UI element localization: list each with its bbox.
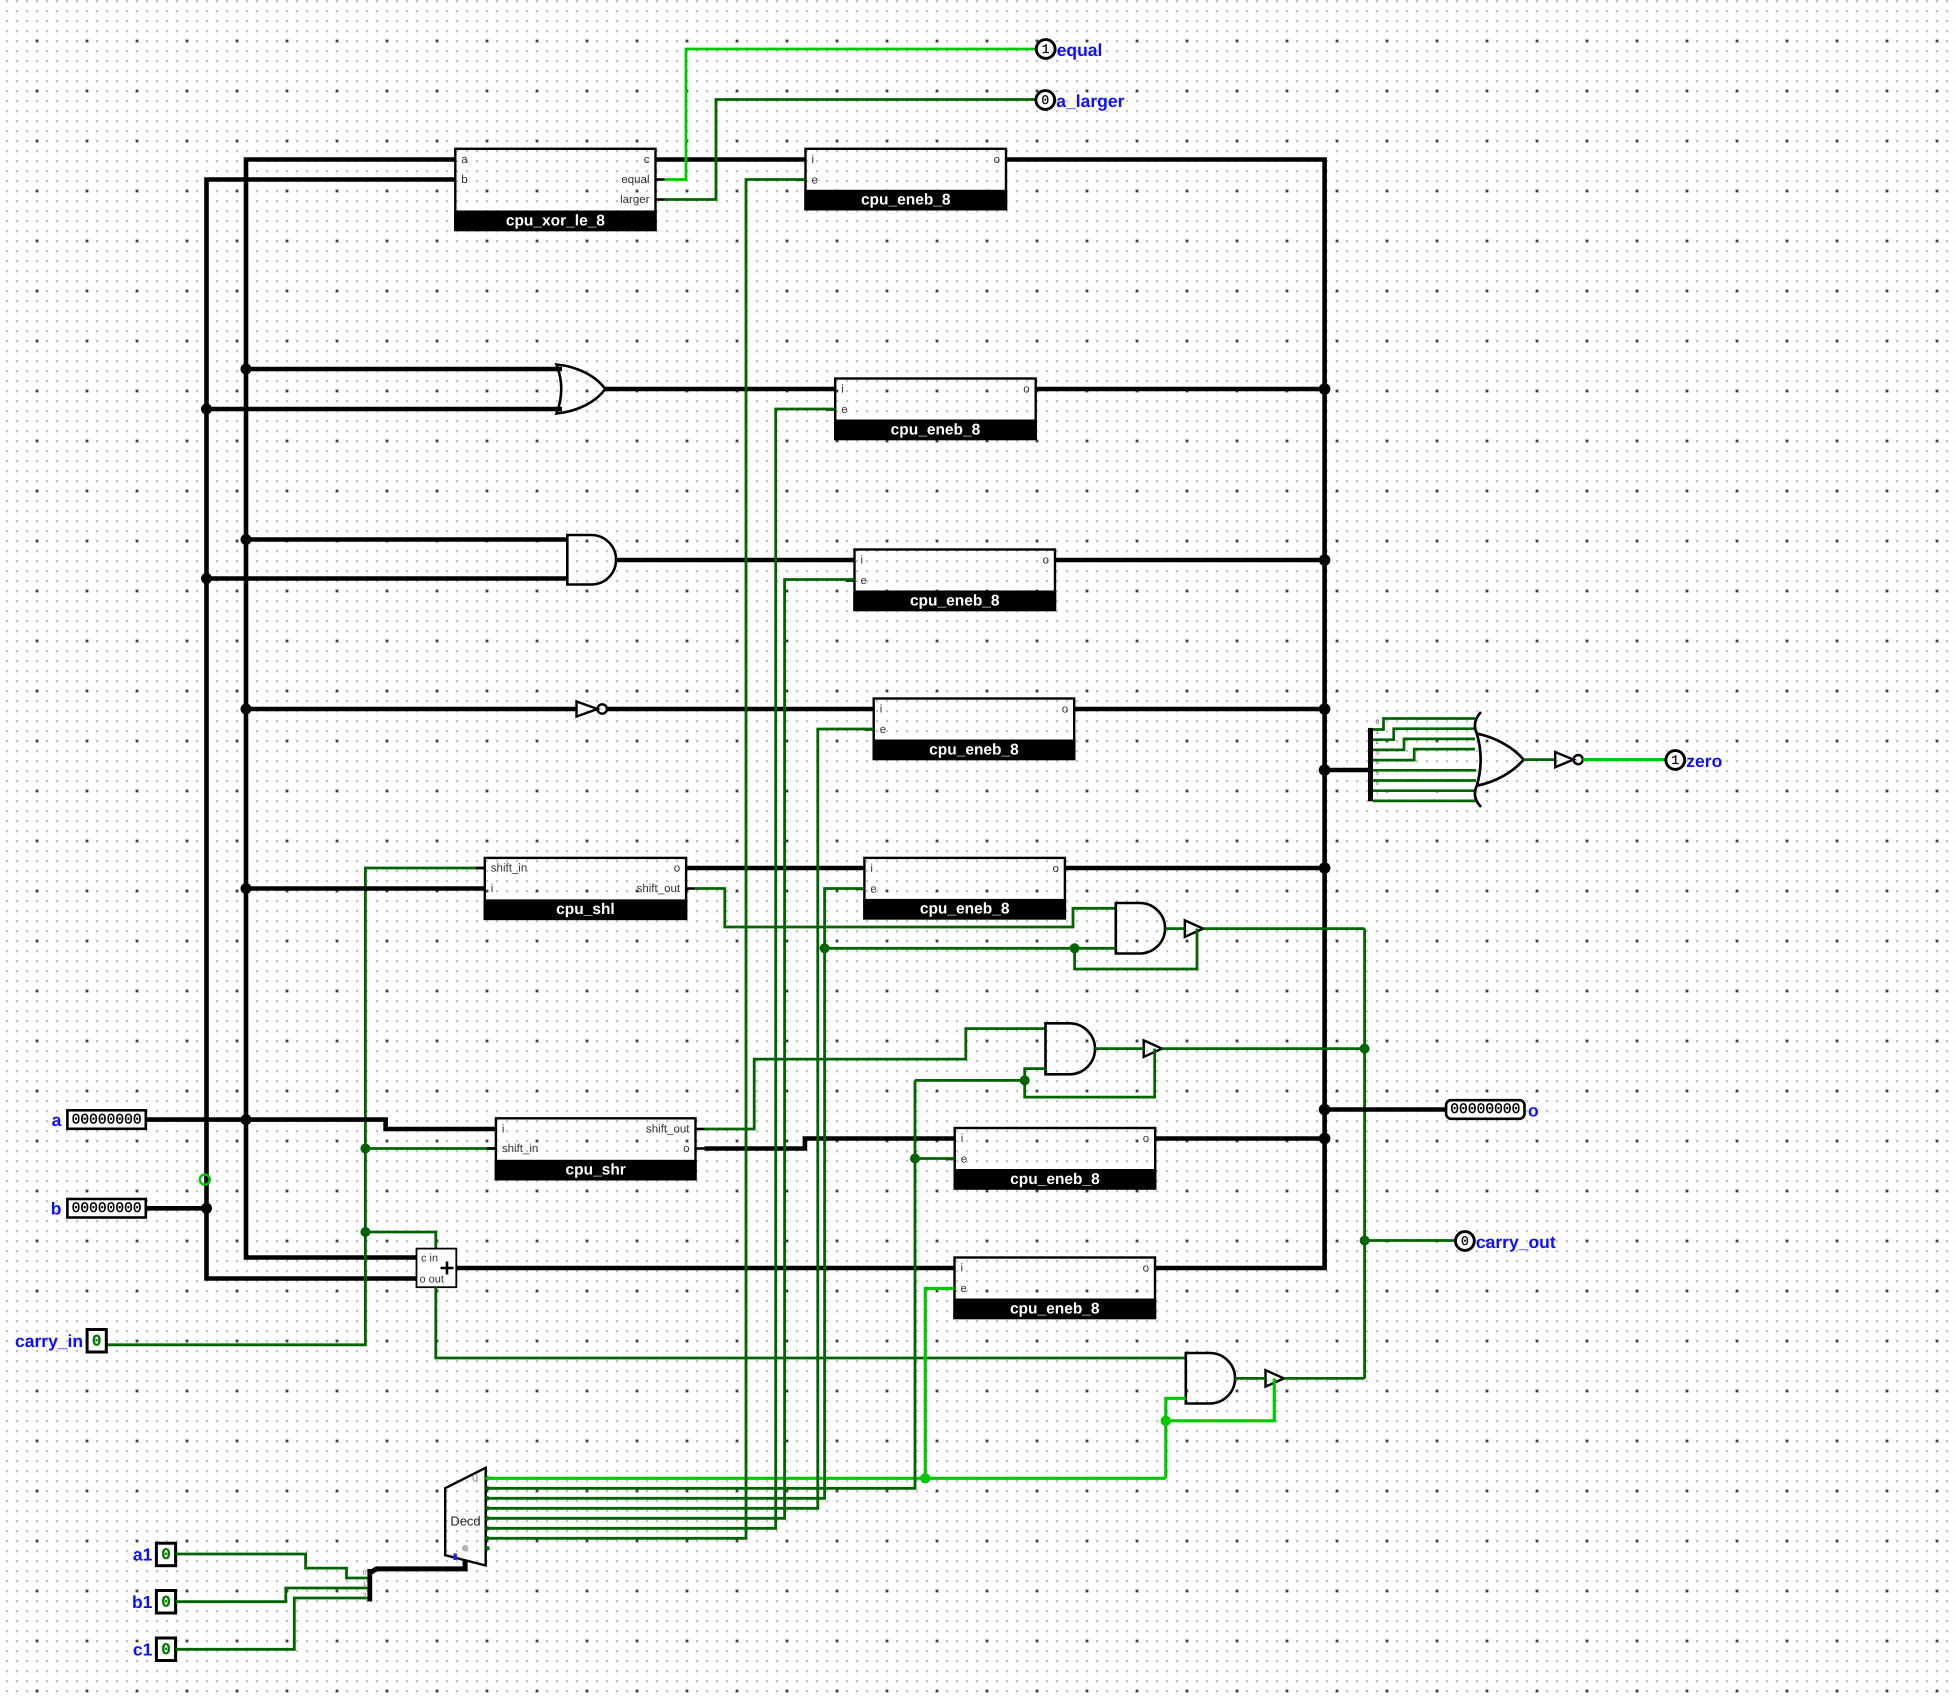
wire decode out2 to U6.e	[486, 889, 865, 1499]
junction a rail row5	[241, 883, 252, 894]
svg-text:0: 0	[161, 1546, 171, 1564]
wire zero net	[1583, 758, 1666, 761]
wire decode out0 (lime)	[486, 1477, 1166, 1480]
output pin equal	[1036, 40, 1102, 60]
svg-text:cpu_xor_le_8: cpu_xor_le_8	[506, 212, 605, 229]
junction a rail row2	[241, 364, 252, 375]
svg-text:o: o	[1023, 384, 1029, 396]
svg-text:b: b	[461, 174, 467, 186]
svg-text:a: a	[52, 1110, 62, 1130]
input pin a	[52, 1110, 146, 1130]
svg-text:o: o	[1043, 555, 1049, 567]
wire shl.o to U6.i	[686, 866, 864, 871]
svg-text:0: 0	[363, 1570, 367, 1577]
svg-text:0: 0	[161, 1594, 171, 1612]
wire a to shl.i	[246, 886, 485, 891]
input pin a1	[133, 1543, 176, 1566]
junction green rail L2	[1360, 1044, 1370, 1054]
wire decode out6 to U2.e	[486, 180, 806, 1539]
svg-text:i: i	[880, 704, 883, 716]
output pin carry_out	[1456, 1232, 1556, 1252]
component U1 cpu_xor_le_8	[446, 149, 664, 231]
wire U7.o to bus	[1155, 1136, 1324, 1141]
svg-text:e: e	[870, 883, 876, 895]
junction bus row6	[1319, 1133, 1331, 1145]
svg-text:i: i	[961, 1133, 964, 1145]
svg-text:0: 0	[161, 1641, 171, 1659]
wire net o bus	[1006, 160, 1325, 1269]
wire splitter bit 3 to OR8	[1373, 749, 1475, 760]
svg-text:cpu_eneb_8: cpu_eneb_8	[910, 592, 1000, 609]
input pin b1	[132, 1591, 176, 1614]
svg-text:1: 1	[363, 1581, 367, 1588]
junction bus row3	[1319, 554, 1331, 566]
wire a_larger net	[665, 100, 1036, 200]
svg-text:shift_in: shift_in	[491, 863, 527, 875]
wire a input to shr.i	[146, 1120, 496, 1129]
svg-text:a1: a1	[133, 1545, 153, 1565]
component U8 cpu_eneb_8	[946, 1258, 1165, 1320]
svg-text:shift_in: shift_in	[502, 1143, 538, 1155]
wire L3 feedback loop	[1166, 1378, 1275, 1420]
svg-text:o: o	[683, 1143, 689, 1155]
svg-text:cpu_shr: cpu_shr	[566, 1162, 626, 1179]
buffer B1	[1185, 920, 1203, 937]
wire L2 feedback loop	[1025, 1049, 1155, 1098]
gate AND1	[567, 535, 616, 585]
wire e5 branch to L1 in2	[825, 947, 1116, 950]
wire B1 out to green rail	[1203, 927, 1364, 930]
svg-text:0: 0	[1376, 719, 1380, 726]
svg-text:b: b	[51, 1199, 62, 1219]
wire carry rail to shr.shift_in	[365, 1147, 496, 1150]
svg-text:equal: equal	[621, 174, 649, 186]
svg-text:e: e	[880, 724, 886, 736]
svg-text:o: o	[674, 863, 680, 875]
svg-text:shift_out: shift_out	[646, 1124, 690, 1136]
svg-text:cpu_eneb_8: cpu_eneb_8	[929, 741, 1019, 758]
svg-text:cpu_eneb_8: cpu_eneb_8	[1010, 1171, 1100, 1188]
svg-text:o: o	[1528, 1101, 1539, 1121]
svg-text:2: 2	[363, 1592, 367, 1599]
svg-text:cpu_eneb_8: cpu_eneb_8	[1010, 1300, 1100, 1317]
junction carry rail adder	[360, 1227, 370, 1237]
wire a1 to merger pin0	[176, 1554, 368, 1578]
wire shr.o to U7.i	[705, 1139, 955, 1149]
wire splitter bit 7 to OR8	[1373, 800, 1476, 803]
merger M1 3bit	[363, 1569, 372, 1602]
svg-text:i: i	[491, 883, 494, 895]
junction a rail row3	[241, 534, 252, 545]
wire net carry_out vertical rail x=1364.6	[1363, 929, 1366, 1379]
svg-text:o: o	[994, 154, 1000, 166]
svg-text:o: o	[1143, 1133, 1149, 1145]
wire U5.o to bus	[1074, 707, 1324, 712]
svg-text:c in: c in	[421, 1253, 438, 1265]
wire L3 to B3	[1235, 1377, 1265, 1380]
svg-text:o out: o out	[420, 1274, 444, 1286]
svg-text:cpu_eneb_8: cpu_eneb_8	[920, 901, 1010, 918]
junction carry rail shr	[360, 1144, 370, 1154]
wire bus to splitter S1	[1325, 768, 1368, 773]
wire b to AND1 in2	[207, 576, 569, 581]
wire AND1 out to U4.i	[616, 558, 854, 563]
wire splitter bit 0 to OR8	[1373, 719, 1475, 730]
svg-text:b1: b1	[132, 1592, 153, 1612]
svg-text:0: 0	[1461, 1234, 1469, 1249]
gate L3 AND	[1186, 1353, 1235, 1404]
wire B2 out to green rail	[1162, 1047, 1365, 1050]
wire L2 to B2	[1095, 1047, 1144, 1050]
wire NOT1 out to U5.i	[607, 707, 874, 712]
component adder +	[417, 1249, 457, 1288]
wire bus to o pin	[1325, 1107, 1447, 1112]
splitter S1 8bit to 1bit	[1368, 719, 1380, 802]
wire xor.c to U2.i	[656, 157, 806, 162]
wire a to OR1 in1	[246, 367, 562, 372]
decoder Decd	[445, 1468, 486, 1566]
junction green rail carry_out	[1360, 1236, 1370, 1246]
wire decode0 to U8.e	[925, 1289, 954, 1479]
junction L2 feedback	[1020, 1075, 1030, 1085]
wire equal net	[665, 49, 1037, 180]
wire carry_out wire	[1365, 1239, 1456, 1242]
svg-text:i: i	[961, 1263, 964, 1275]
junction bus row5	[1319, 862, 1331, 874]
component U3 cpu_eneb_8	[826, 379, 1044, 441]
component U2 cpu_eneb_8	[797, 149, 1016, 211]
svg-text:1: 1	[1042, 42, 1050, 57]
svg-text:e: e	[841, 404, 847, 416]
wire carry rail to adder c_in	[365, 1232, 435, 1250]
wire decode out4 to U4.e	[486, 580, 855, 1519]
svg-text:0: 0	[92, 1333, 102, 1351]
component U7 cpu_eneb_8	[946, 1128, 1164, 1190]
wire shl.shift_out to L1 in1	[695, 889, 1116, 928]
wire net b rail	[207, 180, 456, 1279]
wire U4.o to bus	[1055, 558, 1325, 563]
input pin b	[51, 1199, 146, 1219]
svg-text:shift_out: shift_out	[637, 883, 681, 895]
wire splitter bit 5 to OR8	[1373, 779, 1476, 782]
input pin c1	[133, 1638, 176, 1661]
wire merger bus to decoder select	[371, 1560, 466, 1572]
svg-text:e: e	[861, 575, 867, 587]
junction e5 branch	[820, 943, 830, 953]
svg-text:Decd: Decd	[450, 1514, 480, 1529]
svg-text:0: 0	[1041, 93, 1049, 108]
svg-text:00000000: 00000000	[72, 1201, 142, 1217]
wire adder.o to U8.i	[456, 1266, 954, 1271]
junction b rail row3	[201, 573, 212, 584]
buffer B2	[1144, 1040, 1162, 1057]
svg-text:equal: equal	[1057, 40, 1103, 60]
wire e6 to U7.e port	[915, 1157, 955, 1160]
wire splitter bit 6 to OR8	[1373, 789, 1476, 792]
junction bus row2	[1319, 383, 1331, 395]
wire splitter bit 2 to OR8	[1373, 739, 1475, 750]
input pin carry_in	[15, 1330, 106, 1353]
wire decode out5 to U3.e	[486, 409, 836, 1528]
component U6 cpu_eneb_8	[855, 858, 1074, 920]
wire net a rail	[246, 160, 455, 1258]
svg-text:0: 0	[472, 1473, 478, 1485]
buffer B3	[1266, 1370, 1284, 1387]
junction e6 port	[910, 1154, 920, 1164]
junction b rail row2	[201, 404, 212, 415]
junction L1 feedback	[1070, 943, 1080, 953]
wire b1 to merger pin1	[176, 1588, 368, 1602]
svg-text:00000000: 00000000	[1450, 1102, 1520, 1118]
svg-text:o: o	[1052, 863, 1058, 875]
svg-text:e: e	[961, 1154, 967, 1166]
junction bus splitter	[1319, 764, 1331, 776]
wire decode0 up to L3 in2	[1166, 1398, 1186, 1478]
wire decode out1 to U7.e rail	[486, 1080, 915, 1488]
svg-text:i: i	[502, 1124, 505, 1136]
svg-text:zero: zero	[1686, 751, 1722, 771]
svg-text:larger: larger	[620, 194, 650, 206]
component U9 cpu_shl	[476, 858, 695, 920]
wire splitter bit 4 to OR8	[1373, 769, 1476, 772]
wire L1 to B1	[1165, 927, 1185, 930]
output pin a_larger	[1036, 91, 1125, 111]
junction L3 feedback	[1161, 1416, 1171, 1426]
gate NOT1	[577, 702, 598, 717]
svg-text:c1: c1	[133, 1640, 153, 1660]
wire OR8 to NOT2	[1524, 758, 1556, 761]
gate L2 AND	[1046, 1023, 1096, 1074]
component U10 cpu_shr	[487, 1118, 705, 1180]
svg-text:o: o	[1143, 1263, 1149, 1275]
wire splitter bit 1 to OR8	[1373, 729, 1475, 740]
svg-text:carry_out: carry_out	[1476, 1232, 1556, 1252]
svg-text:00000000: 00000000	[72, 1112, 142, 1128]
svg-text:cpu_eneb_8: cpu_eneb_8	[891, 421, 981, 438]
svg-text:cpu_shl: cpu_shl	[556, 901, 615, 918]
wire U3.o to bus	[1036, 387, 1325, 392]
wire L1 feedback loop	[1075, 929, 1197, 969]
svg-text:cpu_eneb_8: cpu_eneb_8	[861, 192, 951, 209]
svg-text:c: c	[644, 154, 650, 166]
output pin o	[1446, 1100, 1539, 1120]
svg-text:e: e	[812, 174, 818, 186]
gate L1 AND	[1116, 903, 1165, 954]
junction a rail input	[241, 1114, 252, 1125]
component U4 cpu_eneb_8	[846, 550, 1065, 612]
wire decode out3 to U5.e	[486, 729, 874, 1508]
marker green circle on b rail	[200, 1175, 210, 1185]
wire a to NOT1	[246, 707, 577, 712]
svg-text:i: i	[870, 863, 873, 875]
wire adder c_out to L3 in1	[436, 1287, 1186, 1358]
gate OR1	[557, 365, 606, 414]
svg-text:i: i	[812, 154, 815, 166]
svg-text:1: 1	[1671, 753, 1679, 768]
wire B3 out to green rail	[1284, 1377, 1365, 1380]
svg-text:e: e	[961, 1283, 967, 1295]
svg-text:a: a	[461, 154, 468, 166]
svg-text:o: o	[1062, 704, 1068, 716]
output pin zero	[1666, 751, 1722, 771]
junction decode0 to e7	[920, 1473, 930, 1483]
svg-text:a_larger: a_larger	[1056, 91, 1124, 111]
wire e6 branch to L2 in2	[915, 1079, 1025, 1082]
wire a to AND1 in1	[246, 537, 568, 542]
junction bus output o	[1319, 1104, 1331, 1116]
wire b input to rail	[146, 1206, 207, 1211]
gate NOT2	[1555, 752, 1573, 767]
wire U6.o to bus	[1065, 866, 1325, 871]
svg-text:carry_in: carry_in	[15, 1331, 83, 1351]
wire shr.shift_out to L2 in1	[705, 1029, 1046, 1129]
junction bus row4	[1319, 703, 1331, 715]
junction a rail row4	[241, 704, 252, 715]
junction b rail input	[201, 1203, 212, 1214]
gate OR8 zero-detect	[1475, 712, 1524, 807]
wire net carry rail	[106, 868, 485, 1345]
wire c1 to merger pin2	[176, 1598, 368, 1649]
wire OR1 out to U3.i	[605, 387, 835, 392]
component U5 cpu_eneb_8	[865, 699, 1083, 761]
svg-text:i: i	[861, 555, 864, 567]
svg-text:i: i	[841, 384, 844, 396]
wire b to OR1 in2	[207, 407, 563, 412]
